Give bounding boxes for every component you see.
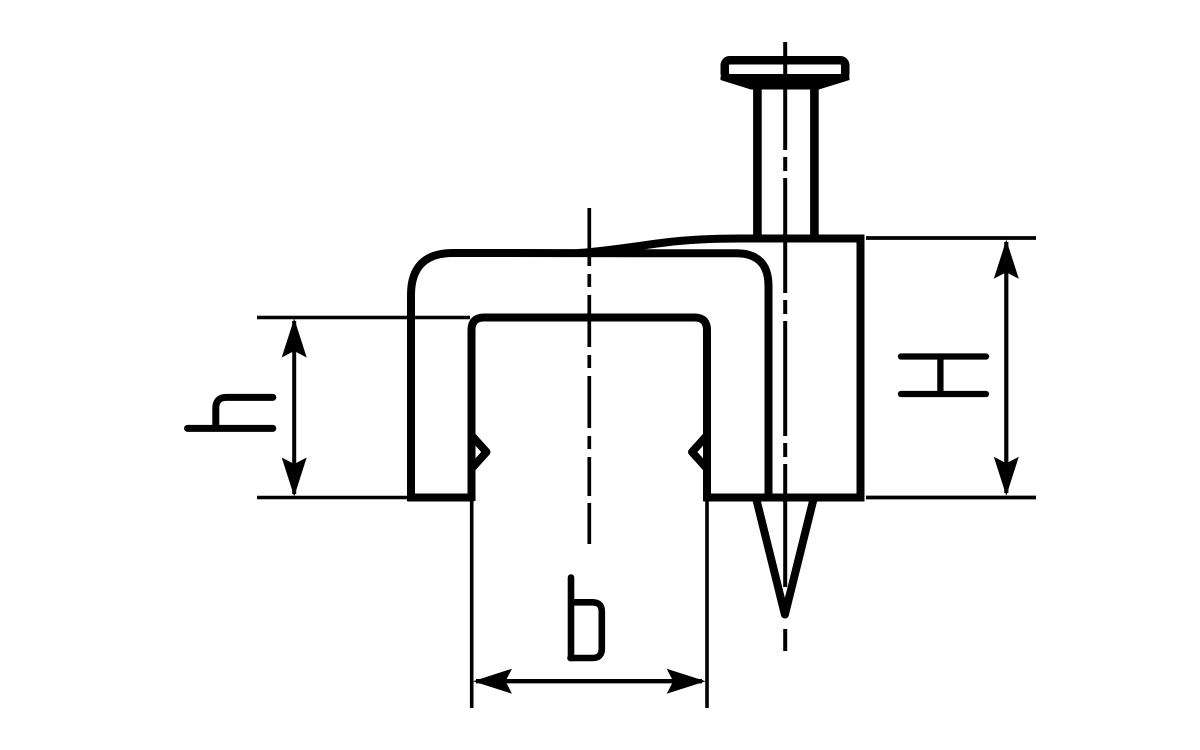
H arrow up [994,240,1019,279]
h arrow up [282,319,307,358]
b arrow right [667,669,706,694]
nail head [725,60,846,78]
label b stem [568,578,575,659]
nail head taper [721,77,850,90]
nail shaft left wall [753,88,762,242]
b dimension line [476,679,702,683]
cable channel [472,318,708,502]
clip body outline [411,253,769,501]
label b bowl [571,602,602,658]
label h (rotated) arch [216,397,273,427]
H top extension line [866,236,1036,240]
h bottom extension line [257,496,410,500]
clip bottom right foot [704,494,865,502]
clip bottom left foot [407,494,474,502]
clip centerline [587,208,591,544]
b arrow left [473,669,512,694]
label h (rotated) stem [188,425,273,432]
nail shaft right wall [810,88,819,242]
clip boss silhouette [578,239,861,498]
label H crossbar [937,357,943,395]
h arrow down [282,458,307,497]
h dimension line [292,321,296,494]
nail point [757,500,814,615]
h top extension line [257,316,470,320]
nail centerline tip dash [783,629,787,651]
nail centerline [783,42,787,587]
left barb [473,437,487,468]
right barb [692,437,706,468]
H dimension line [1004,242,1008,493]
label H bar 1 [901,353,986,359]
label H bar 2 [901,391,986,397]
H arrow down [994,457,1019,496]
b left extension line [470,500,474,708]
H bottom extension line [866,496,1036,500]
b right extension line [705,500,709,708]
